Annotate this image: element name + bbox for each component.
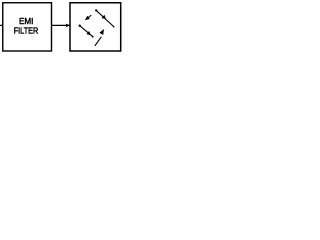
svg-text:FILTER: FILTER	[14, 25, 39, 35]
